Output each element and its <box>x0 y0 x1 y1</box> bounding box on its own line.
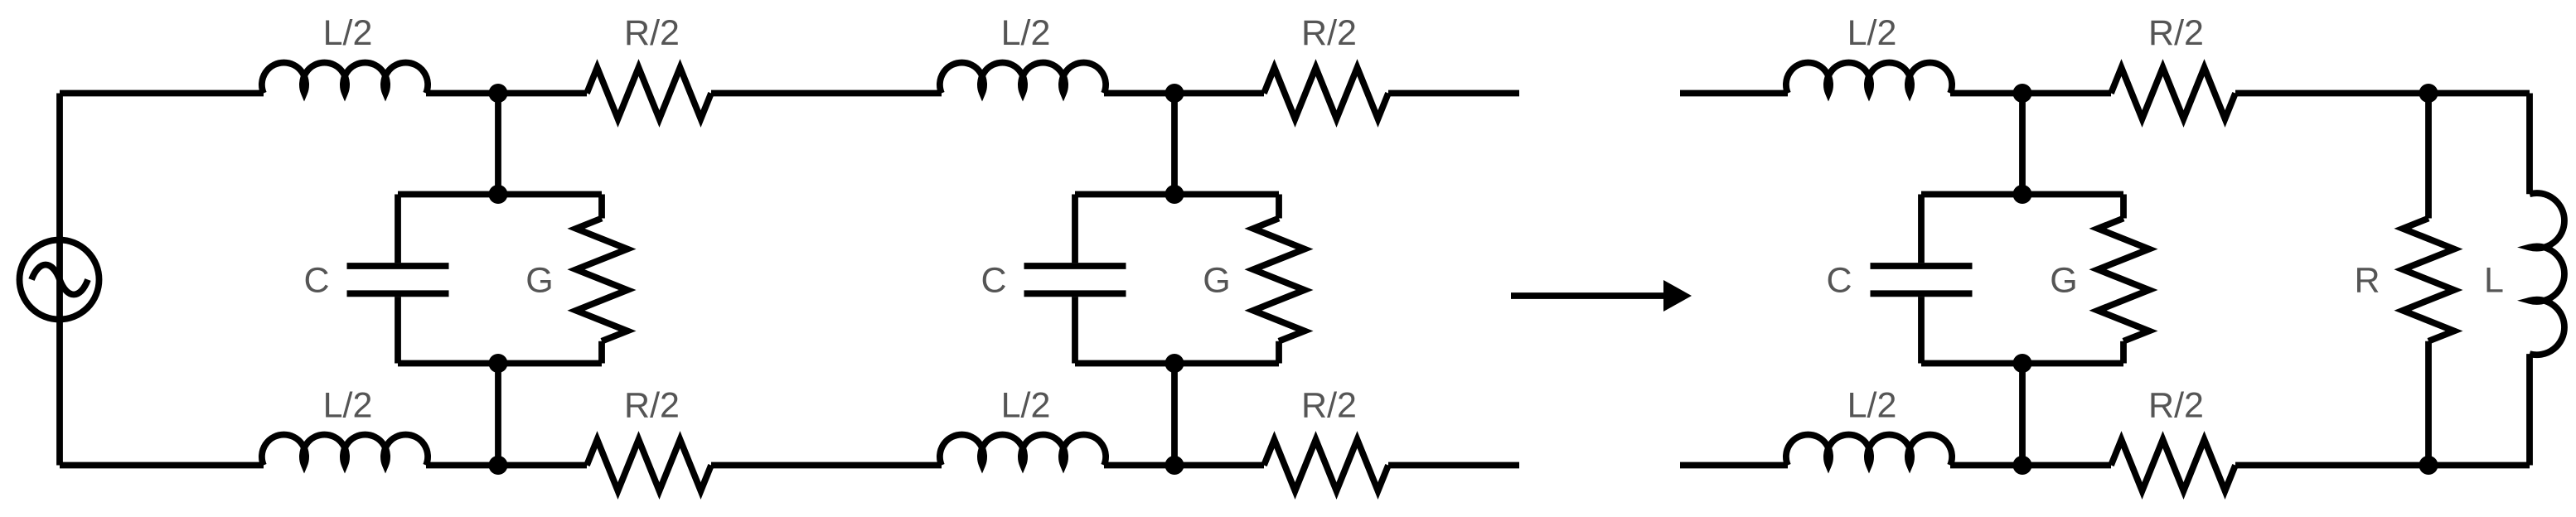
node top section 1 <box>489 84 508 103</box>
inductor L/2 (bottom section 3) <box>1786 435 1952 466</box>
wire shunt 2 bottom rail <box>1075 360 1279 367</box>
wire shunt 2 lower stub <box>1171 364 1178 466</box>
wire top right circuit to load <box>2235 90 2530 97</box>
wire top right end of left circuit <box>1388 90 1519 97</box>
wire top lead to L/2 A <box>60 90 264 97</box>
svg-text:L/2: L/2 <box>1847 13 1897 53</box>
wire top between L/2 C and R/2 C <box>1950 90 2111 97</box>
wire shunt 1 upper stub <box>495 94 501 195</box>
node shunt 2 bottom <box>1165 354 1184 373</box>
svg-text:L/2: L/2 <box>1847 386 1897 426</box>
wire top between R/2 A and L/2 B <box>711 90 942 97</box>
node load bottom <box>2419 456 2438 475</box>
wire top between L/2 A and R/2 A <box>426 90 587 97</box>
svg-text:R/2: R/2 <box>624 386 680 426</box>
arrow <box>1511 280 1692 312</box>
svg-text:R/2: R/2 <box>1301 386 1357 426</box>
wire bottom between sections 1 and 2 <box>711 462 942 469</box>
svg-text:G: G <box>2050 261 2077 301</box>
wire top lead right circuit <box>1680 90 1788 97</box>
resistor R/2 (top section 1) <box>587 68 711 119</box>
svg-text:L/2: L/2 <box>323 386 373 426</box>
wire bottom between L/2 and R/2 section 3 <box>1950 462 2111 469</box>
wire bottom between L/2 and R/2 section 2 <box>1104 462 1264 469</box>
resistor G (section 3) <box>2098 195 2149 364</box>
wire shunt 3 bottom rail <box>1921 360 2123 367</box>
wire shunt 2 top rail <box>1075 191 1279 198</box>
svg-text:G: G <box>525 261 553 301</box>
capacitor C (section 1) <box>347 195 449 364</box>
resistor R/2 (bottom section 1) <box>587 440 711 491</box>
inductor L (load) <box>2530 94 2564 466</box>
svg-text:R/2: R/2 <box>624 13 680 53</box>
svg-text:L/2: L/2 <box>1001 13 1051 53</box>
node shunt 1 bottom <box>489 354 508 373</box>
svg-text:C: C <box>1826 261 1852 301</box>
inductor L/2 (top section 1) <box>262 63 428 94</box>
node bottom section 1 <box>489 456 508 475</box>
resistor R (load) <box>2403 94 2454 466</box>
resistor R/2 (top section 3) <box>2111 68 2235 119</box>
svg-text:R/2: R/2 <box>2148 386 2204 426</box>
svg-text:L: L <box>2484 261 2504 301</box>
wire left vertical <box>56 94 63 466</box>
resistor R/2 (bottom section 2) <box>1264 440 1388 491</box>
node load top <box>2419 84 2438 103</box>
node bottom section 2 <box>1165 456 1184 475</box>
svg-text:R/2: R/2 <box>2148 13 2204 53</box>
capacitor C (section 2) <box>1024 195 1126 364</box>
node shunt 2 top <box>1165 185 1184 204</box>
capacitor C (section 3) <box>1871 195 1973 364</box>
resistor G (section 2) <box>1253 195 1305 364</box>
resistor R/2 (bottom section 3) <box>2111 440 2235 491</box>
wire bottom right end of left circuit <box>1388 462 1519 469</box>
inductor L/2 (top section 2) <box>940 63 1106 94</box>
svg-text:R/2: R/2 <box>1301 13 1357 53</box>
node shunt 3 bottom <box>2013 354 2032 373</box>
svg-text:L/2: L/2 <box>1001 386 1051 426</box>
svg-text:L/2: L/2 <box>323 13 373 53</box>
svg-text:C: C <box>981 261 1006 301</box>
wire shunt 1 top rail <box>398 191 602 198</box>
node top section 2 <box>1165 84 1184 103</box>
resistor G (section 1) <box>576 195 627 364</box>
wire shunt 1 lower stub <box>495 364 501 466</box>
wire bottom right circuit to load <box>2235 462 2530 469</box>
wire shunt 1 bottom rail <box>398 360 602 367</box>
wire shunt 2 upper stub <box>1171 94 1178 195</box>
resistor R/2 (top section 2) <box>1264 68 1388 119</box>
wire shunt 3 upper stub <box>2019 94 2026 195</box>
node top section 3 <box>2013 84 2032 103</box>
svg-text:C: C <box>303 261 329 301</box>
node shunt 3 top <box>2013 185 2032 204</box>
node bottom section 3 <box>2013 456 2032 475</box>
inductor L/2 (bottom section 2) <box>940 435 1106 466</box>
wire bottom lead from source <box>60 462 264 469</box>
AC source V1 <box>20 240 99 320</box>
wire top between L/2 B and R/2 B <box>1104 90 1264 97</box>
wire shunt 3 lower stub <box>2019 364 2026 466</box>
svg-text:G: G <box>1203 261 1230 301</box>
wire shunt 3 top rail <box>1921 191 2123 198</box>
inductor L/2 (bottom section 1) <box>262 435 428 466</box>
node shunt 1 top <box>489 185 508 204</box>
wire bottom lead right circuit <box>1680 462 1788 469</box>
inductor L/2 (top section 3) <box>1786 63 1952 94</box>
svg-text:R: R <box>2354 261 2380 301</box>
wire bottom between L/2 and R/2 section 1 <box>426 462 587 469</box>
